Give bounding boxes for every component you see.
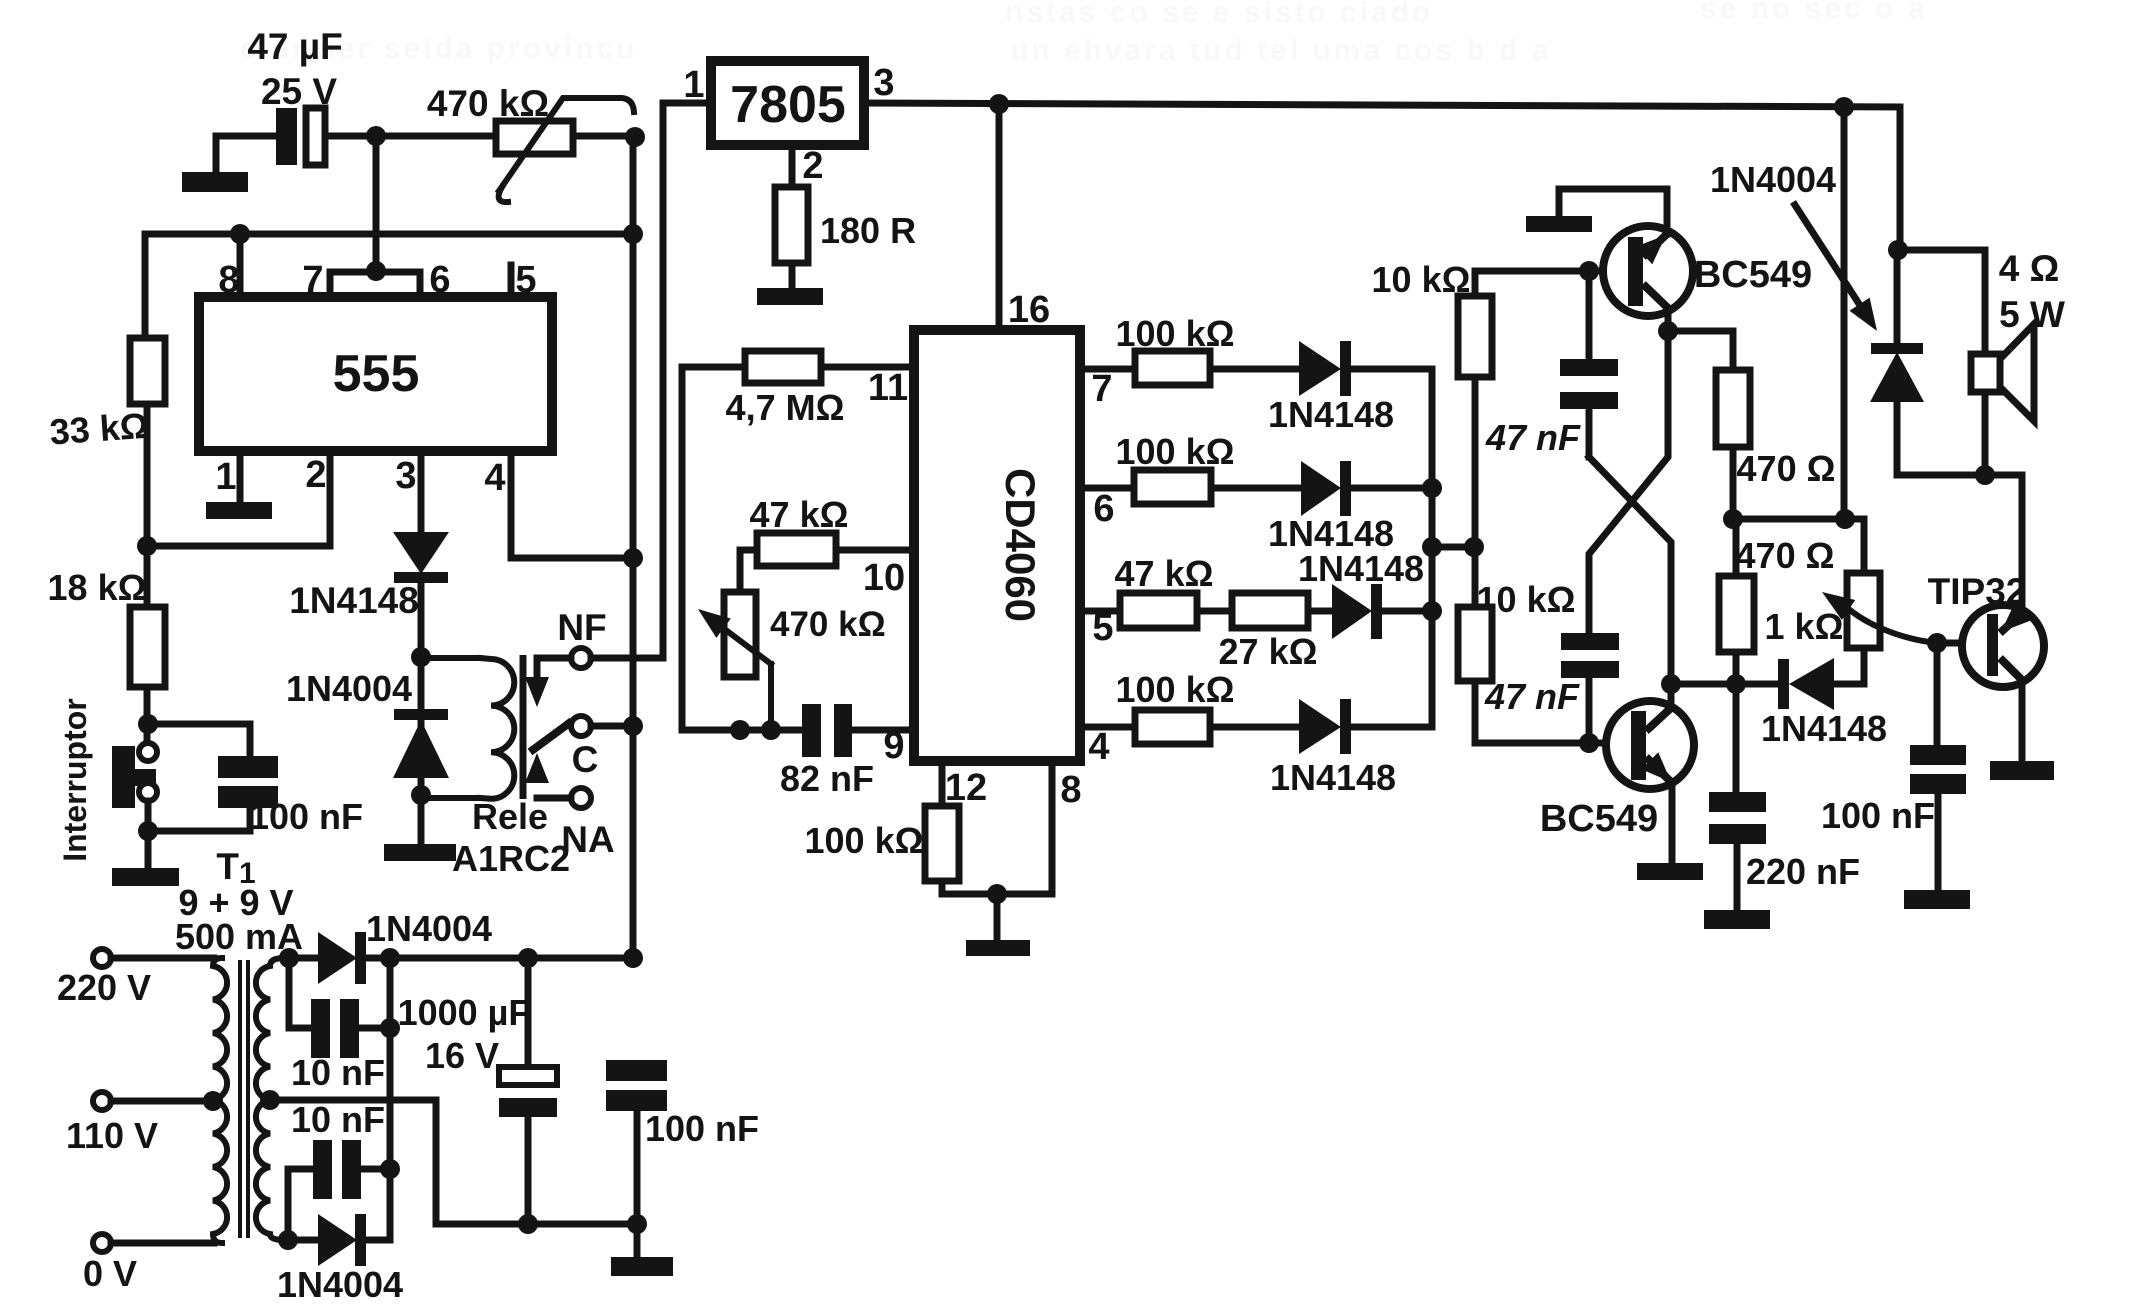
wire 100nF bottom to ground: [1935, 794, 1942, 891]
wire secondary top to diode: [284, 955, 318, 962]
ground (TIP32): [1990, 761, 2054, 780]
resistor 470 Ohm (collector Q1): [1716, 370, 1750, 447]
junction pot wiper/row: [761, 720, 781, 740]
svg-text:100 nF: 100 nF: [249, 796, 363, 837]
svg-text:7: 7: [302, 259, 323, 301]
junction coil bottom: [411, 785, 431, 805]
capacitor 10 nF (top): [311, 999, 359, 1058]
transistor Q3 TIP32 (PNP): [1962, 603, 2044, 687]
wire diode to 1k pot: [1736, 681, 1778, 688]
IC CD4060: [914, 330, 1080, 761]
wire coil bottom to ground: [418, 795, 425, 845]
wire pin8 to ground node: [997, 761, 1052, 894]
capacitor 100 nF (TIP base): [1910, 745, 1966, 794]
wire TIP32 emitter up: [2019, 475, 2026, 610]
wire button to lower node: [145, 801, 152, 868]
junction base Q2: [1579, 733, 1599, 753]
wire CD4060 pin16: [996, 104, 1003, 330]
wire +12V line to riser: [390, 955, 633, 962]
wire pin8 drop: [237, 234, 244, 297]
wire 33k to node: [144, 404, 151, 607]
wire ground line y=1224: [436, 1221, 637, 1228]
wire output bottom row y=475: [1897, 472, 2022, 479]
wire secondary bottom to diode: [284, 1237, 318, 1244]
junction mix rail pin5: [1422, 601, 1442, 621]
wire NA fixed lead: [537, 795, 571, 802]
svg-text:1N4148: 1N4148: [1761, 708, 1887, 749]
wire 220nF top lead: [1733, 684, 1740, 792]
wire 10k top to base Q1: [1475, 271, 1629, 296]
wire 100nF bottom lead: [148, 808, 250, 831]
svg-text:1N4148: 1N4148: [1268, 394, 1394, 435]
wire pot bottom row y=730: [682, 727, 803, 734]
svg-text:Rele: Rele: [472, 796, 548, 837]
junction primary tap: [203, 1091, 223, 1111]
wire 47nF2 to base node Q2: [1586, 678, 1593, 743]
svg-text:470 Ω: 470 Ω: [1736, 535, 1835, 576]
svg-text:1N4148: 1N4148: [1298, 548, 1424, 589]
svg-text:1N4004: 1N4004: [277, 1264, 403, 1305]
svg-text:180 R: 180 R: [820, 210, 916, 251]
svg-text:10 nF: 10 nF: [291, 1052, 385, 1093]
svg-text:10 nF: 10 nF: [291, 1099, 385, 1140]
junction 33k/18k/pin2: [137, 536, 157, 556]
capacitor 1000 uF (electrolytic): [499, 1067, 557, 1117]
potentiometer 470 kOhm (preset, top): [496, 98, 634, 202]
resistor 100 kOhm (pin6): [1134, 470, 1211, 504]
wire 10nF top left lead: [289, 958, 312, 1028]
resistor 100 kOhm (pin12): [925, 806, 959, 881]
svg-text:100 kΩ: 100 kΩ: [1116, 431, 1235, 472]
wire 1000uF top lead: [525, 958, 532, 1068]
wire 10nF bottom left lead: [288, 1169, 313, 1240]
svg-text:110 V: 110 V: [66, 1115, 158, 1156]
wire diode anode to pot bottom: [1834, 648, 1864, 684]
transformer T1 secondary winding: [256, 958, 284, 1240]
svg-text:BC549: BC549: [1540, 798, 1658, 840]
svg-text:5: 5: [515, 259, 536, 301]
wire 220V to primary: [111, 955, 214, 962]
junction on strap: [366, 261, 386, 281]
wire 180R to ground: [789, 263, 796, 289]
wire TIP32 collector to ground: [2019, 683, 2026, 762]
svg-text:BC549: BC549: [1694, 254, 1812, 296]
svg-text:8: 8: [218, 259, 239, 301]
wire speaker bottom: [1982, 392, 1989, 475]
svg-text:4,7 MΩ: 4,7 MΩ: [726, 387, 845, 428]
svg-text:1N4004: 1N4004: [1710, 159, 1836, 200]
junction 10nF bottom/bus: [380, 1159, 400, 1179]
junction pin4/riser: [623, 548, 643, 568]
svg-text:2: 2: [305, 454, 326, 496]
resistor 470 Ohm (output): [1719, 576, 1754, 652]
wire 470R2 leads: [1733, 519, 1740, 576]
wire diode anode down: [1894, 402, 1901, 475]
capacitor 10 nF (bottom): [313, 1140, 361, 1199]
wire +5V node line: [1733, 519, 1864, 573]
wire +5V rail drop x=1844: [1841, 107, 1848, 519]
wire 10k top to divider rail: [1472, 377, 1479, 607]
wire pin6 to resistor: [1080, 485, 1134, 492]
svg-text:6: 6: [429, 259, 450, 301]
junction diode/coil top: [411, 647, 431, 667]
svg-text:470 Ω: 470 Ω: [1737, 448, 1836, 489]
svg-text:3: 3: [395, 455, 416, 497]
svg-text:1N4004: 1N4004: [366, 908, 492, 949]
wire 0V to primary: [111, 1240, 214, 1247]
ground (interruptor): [112, 868, 179, 886]
wire 47k to pin10: [836, 547, 914, 554]
resistor 100 kOhm (pin4): [1135, 710, 1210, 744]
junction rail/right riser: [623, 224, 643, 244]
junction 470R/+5V line: [1723, 509, 1743, 529]
wire 10k bottom to base node Q2: [1475, 681, 1589, 743]
svg-text:27 kΩ: 27 kΩ: [1219, 631, 1318, 672]
transistor Q2 BC549 (bottom): [1606, 701, 1694, 790]
junction sec-top: [279, 948, 299, 968]
svg-text:82 nF: 82 nF: [780, 758, 874, 799]
junction 18k/100nF top: [138, 714, 158, 734]
wire cross-couple A (cap1 to collector Q2): [1589, 457, 1671, 702]
capacitor 82 nF: [802, 704, 852, 757]
svg-text:6: 6: [1093, 488, 1114, 530]
wire emitter Q1 to ground: [1559, 189, 1667, 234]
resistor 33 kOhm: [130, 338, 165, 404]
svg-text:1N4148: 1N4148: [1270, 757, 1396, 798]
IC 7805 regulator: [711, 61, 864, 145]
capacitor 220 nF: [1709, 792, 1766, 844]
svg-text:470 kΩ: 470 kΩ: [427, 83, 549, 124]
relay contact NA: [571, 788, 591, 808]
svg-text:11: 11: [868, 367, 908, 409]
junction +12V/riser bottom: [623, 948, 643, 968]
ground (relay): [384, 844, 456, 861]
wire cap left to ground corner: [216, 136, 276, 173]
wire to speaker top: [1898, 250, 1985, 355]
ground (Q1 emitter): [1526, 216, 1592, 232]
junction pot body/row: [730, 720, 750, 740]
junction rectifier output: [380, 948, 400, 968]
ground (47uF): [182, 172, 248, 192]
IC 555: [199, 297, 552, 451]
junction pin8 on rail: [230, 224, 250, 244]
svg-text:16: 16: [1008, 289, 1050, 331]
svg-text:5 W: 5 W: [1999, 294, 2065, 335]
diode 1N4004 (top rectifier): [318, 932, 366, 984]
wire base node to Q2: [1589, 740, 1631, 747]
wire bottom diode to bus: [366, 1237, 390, 1244]
svg-text:47 µF: 47 µF: [247, 26, 342, 67]
wire 110V to primary tap: [111, 1098, 213, 1105]
svg-text:100 kΩ: 100 kΩ: [805, 820, 924, 861]
svg-text:47 kΩ: 47 kΩ: [750, 494, 849, 535]
wire secondary tap to ground line: [270, 1100, 436, 1224]
wire diode to mix rail (pin7): [1351, 366, 1432, 373]
wire cross-couple B (collector Q1 to cap2): [1589, 331, 1668, 634]
pin 5 stub: [508, 265, 515, 297]
wire diode to mix rail (pin4): [1351, 724, 1432, 731]
wire 27k to diode (pin5): [1308, 608, 1334, 615]
wire pin2 to 33k/18k node: [147, 451, 330, 546]
svg-text:TIP32: TIP32: [1928, 571, 2027, 612]
wire 82nF to pin9: [852, 727, 914, 734]
wire resistor to diode (pin7): [1210, 366, 1301, 373]
diode 1N4148 (pin5): [1332, 584, 1382, 639]
svg-text:C: C: [572, 739, 599, 780]
ground (220nF): [1704, 910, 1770, 929]
svg-text:0 V: 0 V: [83, 1253, 137, 1294]
svg-text:10: 10: [863, 557, 905, 599]
svg-text:7: 7: [1091, 368, 1112, 410]
svg-text:1: 1: [683, 64, 704, 106]
wire +5V corner to diode/speaker: [1897, 107, 1904, 250]
svg-text:47 kΩ: 47 kΩ: [1115, 553, 1214, 594]
junction button/100nF bottom: [138, 821, 158, 841]
junction mix rail pin6: [1422, 478, 1442, 498]
svg-text:100 kΩ: 100 kΩ: [1116, 669, 1235, 710]
resistor 47 kOhm (pin5): [1120, 593, 1197, 628]
wire 1000uF bottom lead: [525, 1117, 532, 1224]
wire 470R to +5V node: [1730, 447, 1737, 519]
svg-text:47 nF: 47 nF: [1485, 417, 1581, 458]
wire pin4 to right riser: [511, 451, 633, 558]
wire rectifier bus x=390: [387, 958, 394, 1240]
wire 47nF top lead to base Q1: [1586, 271, 1593, 359]
svg-text:1: 1: [215, 456, 236, 498]
svg-text:16 V: 16 V: [425, 1035, 499, 1076]
junction mix/bridge: [1422, 537, 1442, 557]
terminal 220 V: [93, 949, 111, 967]
relay core bar: [520, 655, 527, 799]
junction C/riser: [623, 716, 643, 736]
svg-text:7805: 7805: [730, 76, 846, 134]
junction speaker/output: [1975, 465, 1995, 485]
svg-text:25 V: 25 V: [261, 71, 337, 112]
svg-text:100 nF: 100 nF: [1821, 795, 1935, 836]
junction speaker feed: [1888, 240, 1908, 260]
wire diode to mix rail (pin5): [1382, 608, 1432, 615]
ground (CD4060): [966, 940, 1030, 956]
svg-text:18 kΩ: 18 kΩ: [48, 567, 147, 608]
wire 47k to 27k: [1197, 608, 1232, 615]
wire C to +12V riser: [591, 723, 633, 730]
wire node to ground: [994, 894, 1001, 941]
junction sec-bottom: [278, 1230, 298, 1250]
wire 7805 out +5V rail: [864, 103, 1900, 107]
svg-text:3: 3: [873, 62, 894, 104]
junction node top of pin7/6: [366, 126, 386, 146]
junction 10nF top/bus: [380, 1018, 400, 1038]
wire mix rail x=1432: [1429, 369, 1436, 727]
svg-text:100 kΩ: 100 kΩ: [1116, 313, 1235, 354]
resistor 10 kOhm (bottom): [1458, 607, 1492, 681]
wire diode to relay node: [418, 583, 425, 657]
wire 10nF top right lead: [358, 1025, 390, 1032]
relay contact NF: [571, 648, 591, 668]
svg-text:220 nF: 220 nF: [1746, 851, 1860, 892]
wire 47nF bottom lead: [1586, 409, 1593, 457]
wire pin12 down: [939, 761, 946, 807]
potentiometer 1 kOhm: [1815, 573, 1937, 648]
capacitor 100 nF (button): [218, 756, 278, 808]
wire pin7 to resistor: [1080, 366, 1135, 373]
svg-text:4: 4: [1088, 726, 1109, 768]
relay lever arrow: [525, 753, 549, 783]
wire from node down to 555 pin7/6 strap: [373, 136, 380, 271]
wire NF fixed lead + arrow: [525, 658, 571, 707]
transformer T1 primary winding: [213, 958, 227, 1243]
transformer core: [240, 960, 248, 1238]
svg-text:4: 4: [484, 457, 505, 499]
diode 1N4004 (bottom rectifier): [318, 1214, 366, 1266]
wire 7805 input riser x=663: [663, 103, 711, 658]
wire resistor to diode (pin6): [1211, 485, 1301, 492]
resistor 10 kOhm (top): [1458, 296, 1492, 377]
wire pin5 to resistor: [1080, 608, 1120, 615]
wire 100nF top lead: [148, 724, 250, 757]
diode 1N4148 (pin3): [393, 532, 449, 583]
svg-text:1 kΩ: 1 kΩ: [1765, 606, 1844, 647]
wire 4,7M right to pin11: [821, 364, 914, 371]
diode 1N4148 (pin4): [1299, 699, 1351, 754]
wire cap right to 470k and +12V rail: [325, 133, 635, 140]
speaker 4 Ohm 5 W: [1971, 324, 2034, 421]
svg-text:1N4004: 1N4004: [286, 668, 412, 709]
wire diode to +12V node: [366, 955, 390, 962]
ground (Q2 emitter): [1637, 863, 1703, 880]
diode 1N4148 (output): [1778, 658, 1834, 710]
relay contact C: [571, 716, 591, 736]
terminal 0 V: [93, 1234, 111, 1252]
wire clamp anode to bottom node: [418, 657, 425, 795]
wire collector Q1 to 470R: [1668, 331, 1733, 371]
ground (180R): [757, 288, 823, 305]
junction collector Q1: [1658, 321, 1678, 341]
wire base node to TIP32: [1937, 640, 1987, 647]
wire left rail down to 33k: [142, 234, 149, 338]
svg-text:4 Ω: 4 Ω: [1999, 248, 2060, 289]
wire 100nF bottom to ground: [634, 1111, 641, 1258]
wire pin4 to resistor: [1080, 724, 1135, 731]
wire pin1 to ground: [237, 451, 244, 503]
transistor Q1 BC549 (top): [1603, 226, 1693, 316]
pointer 1N4004 label to diode: [1793, 202, 1887, 338]
resistor 4,7 MOhm: [745, 351, 821, 383]
ground (100nF TIP): [1904, 890, 1970, 909]
wire 18k to interruptor: [144, 687, 151, 743]
junction +5V rail/drop: [1834, 97, 1854, 117]
svg-text:nstas co se e sisto ciado: nstas co se e sisto ciado: [1005, 0, 1433, 29]
svg-text:47 nF: 47 nF: [1484, 676, 1580, 717]
wire +12V riser x=633: [630, 136, 637, 958]
wire 470R2 bottom: [1733, 652, 1740, 684]
svg-text:470 kΩ: 470 kΩ: [770, 605, 886, 644]
svg-text:Interruptor: Interruptor: [57, 698, 93, 862]
junction 1000uF bottom: [518, 1214, 538, 1234]
svg-text:se no sec o a: se no sec o a: [1700, 0, 1927, 25]
capacitor 47 nF (bottom): [1561, 633, 1619, 678]
wire 10nF bottom right lead: [361, 1166, 390, 1173]
junction collector Q2 / output: [1661, 674, 1681, 694]
wire 7805 pin2: [789, 145, 796, 188]
junction bridge/divider rail: [1464, 537, 1484, 557]
svg-text:8: 8: [1060, 769, 1081, 811]
wire Vcc rail y=234: [145, 234, 633, 236]
capacitor 47uF 25V (electrolytic): [276, 108, 325, 165]
capacitor 47 nF (top): [1560, 359, 1618, 409]
svg-text:A1RC2: A1RC2: [452, 838, 570, 879]
resistor 18 kOhm: [130, 607, 165, 687]
wire 100nF top lead: [1934, 643, 1941, 745]
junction +5V drop: [1835, 509, 1855, 529]
junction 470R2/220nF: [1726, 674, 1746, 694]
svg-text:1000 µF: 1000 µF: [398, 992, 531, 1033]
relay coil: [421, 658, 514, 799]
junction base Q1 / 47nF: [1579, 261, 1599, 281]
resistor 100 kOhm (pin7): [1135, 351, 1210, 385]
wire pin3 down: [418, 451, 425, 534]
svg-text:9: 9: [883, 725, 904, 767]
wire 47k left to pot top: [740, 550, 757, 592]
svg-text:1N4148: 1N4148: [289, 580, 419, 621]
pushbutton Interruptor: [112, 743, 157, 808]
diode 1N4004 (flyback): [1870, 343, 1924, 402]
resistor 180 R: [775, 187, 808, 263]
terminal 110 V: [93, 1092, 111, 1110]
junction TIP32 base node: [1927, 633, 1947, 653]
capacitor 100 nF (supply): [606, 1060, 667, 1111]
potentiometer 470 kOhm (oscillator): [691, 592, 771, 730]
junction secondary tap: [260, 1090, 280, 1110]
diode 1N4148 (pin7): [1299, 341, 1351, 396]
junction ground line/right riser: [627, 1214, 647, 1234]
wire strap pins 7-6 of 555: [330, 272, 420, 297]
diode 1N4004 (relay clamp): [393, 709, 449, 778]
wire collector Q1 down: [1665, 310, 1672, 331]
wire diode to mix rail (pin6): [1351, 485, 1432, 492]
svg-text:2: 2: [802, 145, 823, 187]
diode 1N4148 (pin6): [1301, 461, 1351, 516]
junction 1000uF top: [518, 948, 538, 968]
resistor 47 kOhm (pin10): [757, 533, 836, 566]
ground (supply): [611, 1257, 673, 1276]
svg-text:100 nF: 100 nF: [645, 1108, 759, 1149]
svg-text:555: 555: [333, 345, 420, 403]
wire NF to 7805 input riser: [591, 655, 663, 662]
junction pin8/100k: [987, 884, 1007, 904]
wire 4,7M left loop down: [682, 367, 745, 730]
wire bridge to divider rail: [1432, 544, 1474, 551]
svg-text:220 V: 220 V: [57, 967, 151, 1008]
svg-text:un ehvara tud tel uma co: un ehvara tud tel uma cos b d a: [1010, 34, 1551, 67]
wire output row y=684: [1671, 681, 1736, 688]
wire 100k to ground node: [942, 881, 997, 894]
svg-text:NF: NF: [557, 607, 606, 648]
svg-text:CD4060: CD4060: [997, 468, 1044, 622]
wire diode cathode up: [1894, 250, 1901, 343]
svg-text:33 kΩ: 33 kΩ: [48, 405, 150, 453]
wire resistor to diode (pin4): [1210, 724, 1301, 731]
ground (555 pin1): [206, 502, 272, 519]
resistor 27 kOhm (pin5): [1232, 593, 1308, 628]
junction +5V/CD4060 pin16: [989, 94, 1009, 114]
wire emitter Q2 to ground: [1669, 783, 1676, 864]
relay lever: [530, 721, 572, 752]
junction riser top: [625, 127, 645, 147]
wire 220nF bottom to ground: [1734, 844, 1741, 911]
